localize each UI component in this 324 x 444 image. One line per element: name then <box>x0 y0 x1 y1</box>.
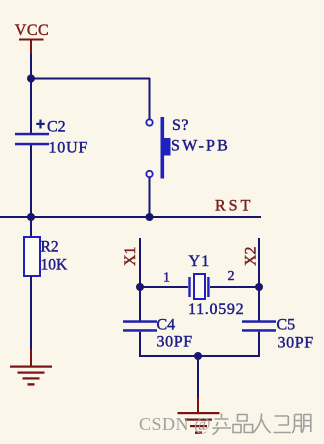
wire switch pin 2 to RST rail <box>149 178 151 219</box>
svg-text:11.0592: 11.0592 <box>188 301 244 318</box>
resistor R2 <box>24 237 68 276</box>
svg-text:X2: X2 <box>243 246 260 266</box>
wire node A to switch (horizontal) <box>30 78 150 80</box>
wire C5 down to bottom rail <box>258 332 260 357</box>
svg-text:X1: X1 <box>122 246 139 266</box>
svg-text:CSDN @: CSDN @ <box>139 414 211 434</box>
svg-text:C4: C4 <box>157 317 176 334</box>
watermark chinese characters <box>213 414 311 435</box>
wire R2 to ground <box>30 276 32 353</box>
wire VCC to node A <box>30 54 32 79</box>
wire down to switch pin 1 <box>149 78 151 119</box>
wire C2 to RST rail <box>30 145 32 218</box>
node E junction dot (X2) <box>255 283 263 291</box>
svg-text:Y1: Y1 <box>189 253 211 270</box>
wire bottom rail <box>139 355 260 357</box>
品 <box>233 415 253 433</box>
node C junction dot (switch / RST) <box>146 213 154 221</box>
wire X1 node to crystal pin 1 <box>140 286 188 288</box>
wire bottom rail to ground <box>197 356 199 400</box>
node D junction dot (X1) <box>136 283 144 291</box>
wire C4 down to bottom rail <box>139 332 141 357</box>
wire X1 node down to C4 <box>139 287 141 321</box>
node F junction dot (bottom rail / ground) <box>194 352 202 360</box>
svg-text:S?: S? <box>172 117 189 134</box>
svg-text:C2: C2 <box>47 119 66 136</box>
wire RST rail to R2 <box>30 218 32 238</box>
wire X2 node down to C5 <box>258 287 260 321</box>
朋 <box>292 415 311 434</box>
capacitor C5 <box>242 317 314 352</box>
wire RST rail <box>0 216 261 218</box>
svg-text:1: 1 <box>163 271 170 286</box>
svg-text:VCC: VCC <box>15 22 49 39</box>
node A junction dot <box>27 75 35 83</box>
capacitor C4 <box>123 317 193 351</box>
svg-text:RST: RST <box>215 198 253 215</box>
ground (left) <box>10 349 52 386</box>
svg-text:SW-PB: SW-PB <box>171 138 230 155</box>
wire X1 stub <box>139 238 141 288</box>
svg-text:30PF: 30PF <box>278 335 314 352</box>
产 <box>213 414 232 435</box>
svg-text:2: 2 <box>228 269 235 284</box>
ground (center) <box>178 398 220 434</box>
wire node A down to C2 <box>30 79 32 133</box>
node B junction dot (left rail / RST) <box>27 213 35 221</box>
卫 <box>274 416 292 433</box>
wire crystal pin 2 to X2 node <box>210 286 259 288</box>
svg-text:R2: R2 <box>41 239 59 256</box>
svg-text:C5: C5 <box>277 317 296 334</box>
wire X2 stub <box>258 238 260 288</box>
switch S? SW-PB <box>146 117 230 179</box>
capacitor C2 <box>15 119 88 157</box>
power symbol VCC <box>15 22 49 56</box>
crystal Y1 <box>188 253 244 318</box>
svg-text:10K: 10K <box>41 257 69 274</box>
svg-text:30PF: 30PF <box>157 334 193 351</box>
人 <box>253 414 271 434</box>
svg-text:10UF: 10UF <box>49 140 89 157</box>
